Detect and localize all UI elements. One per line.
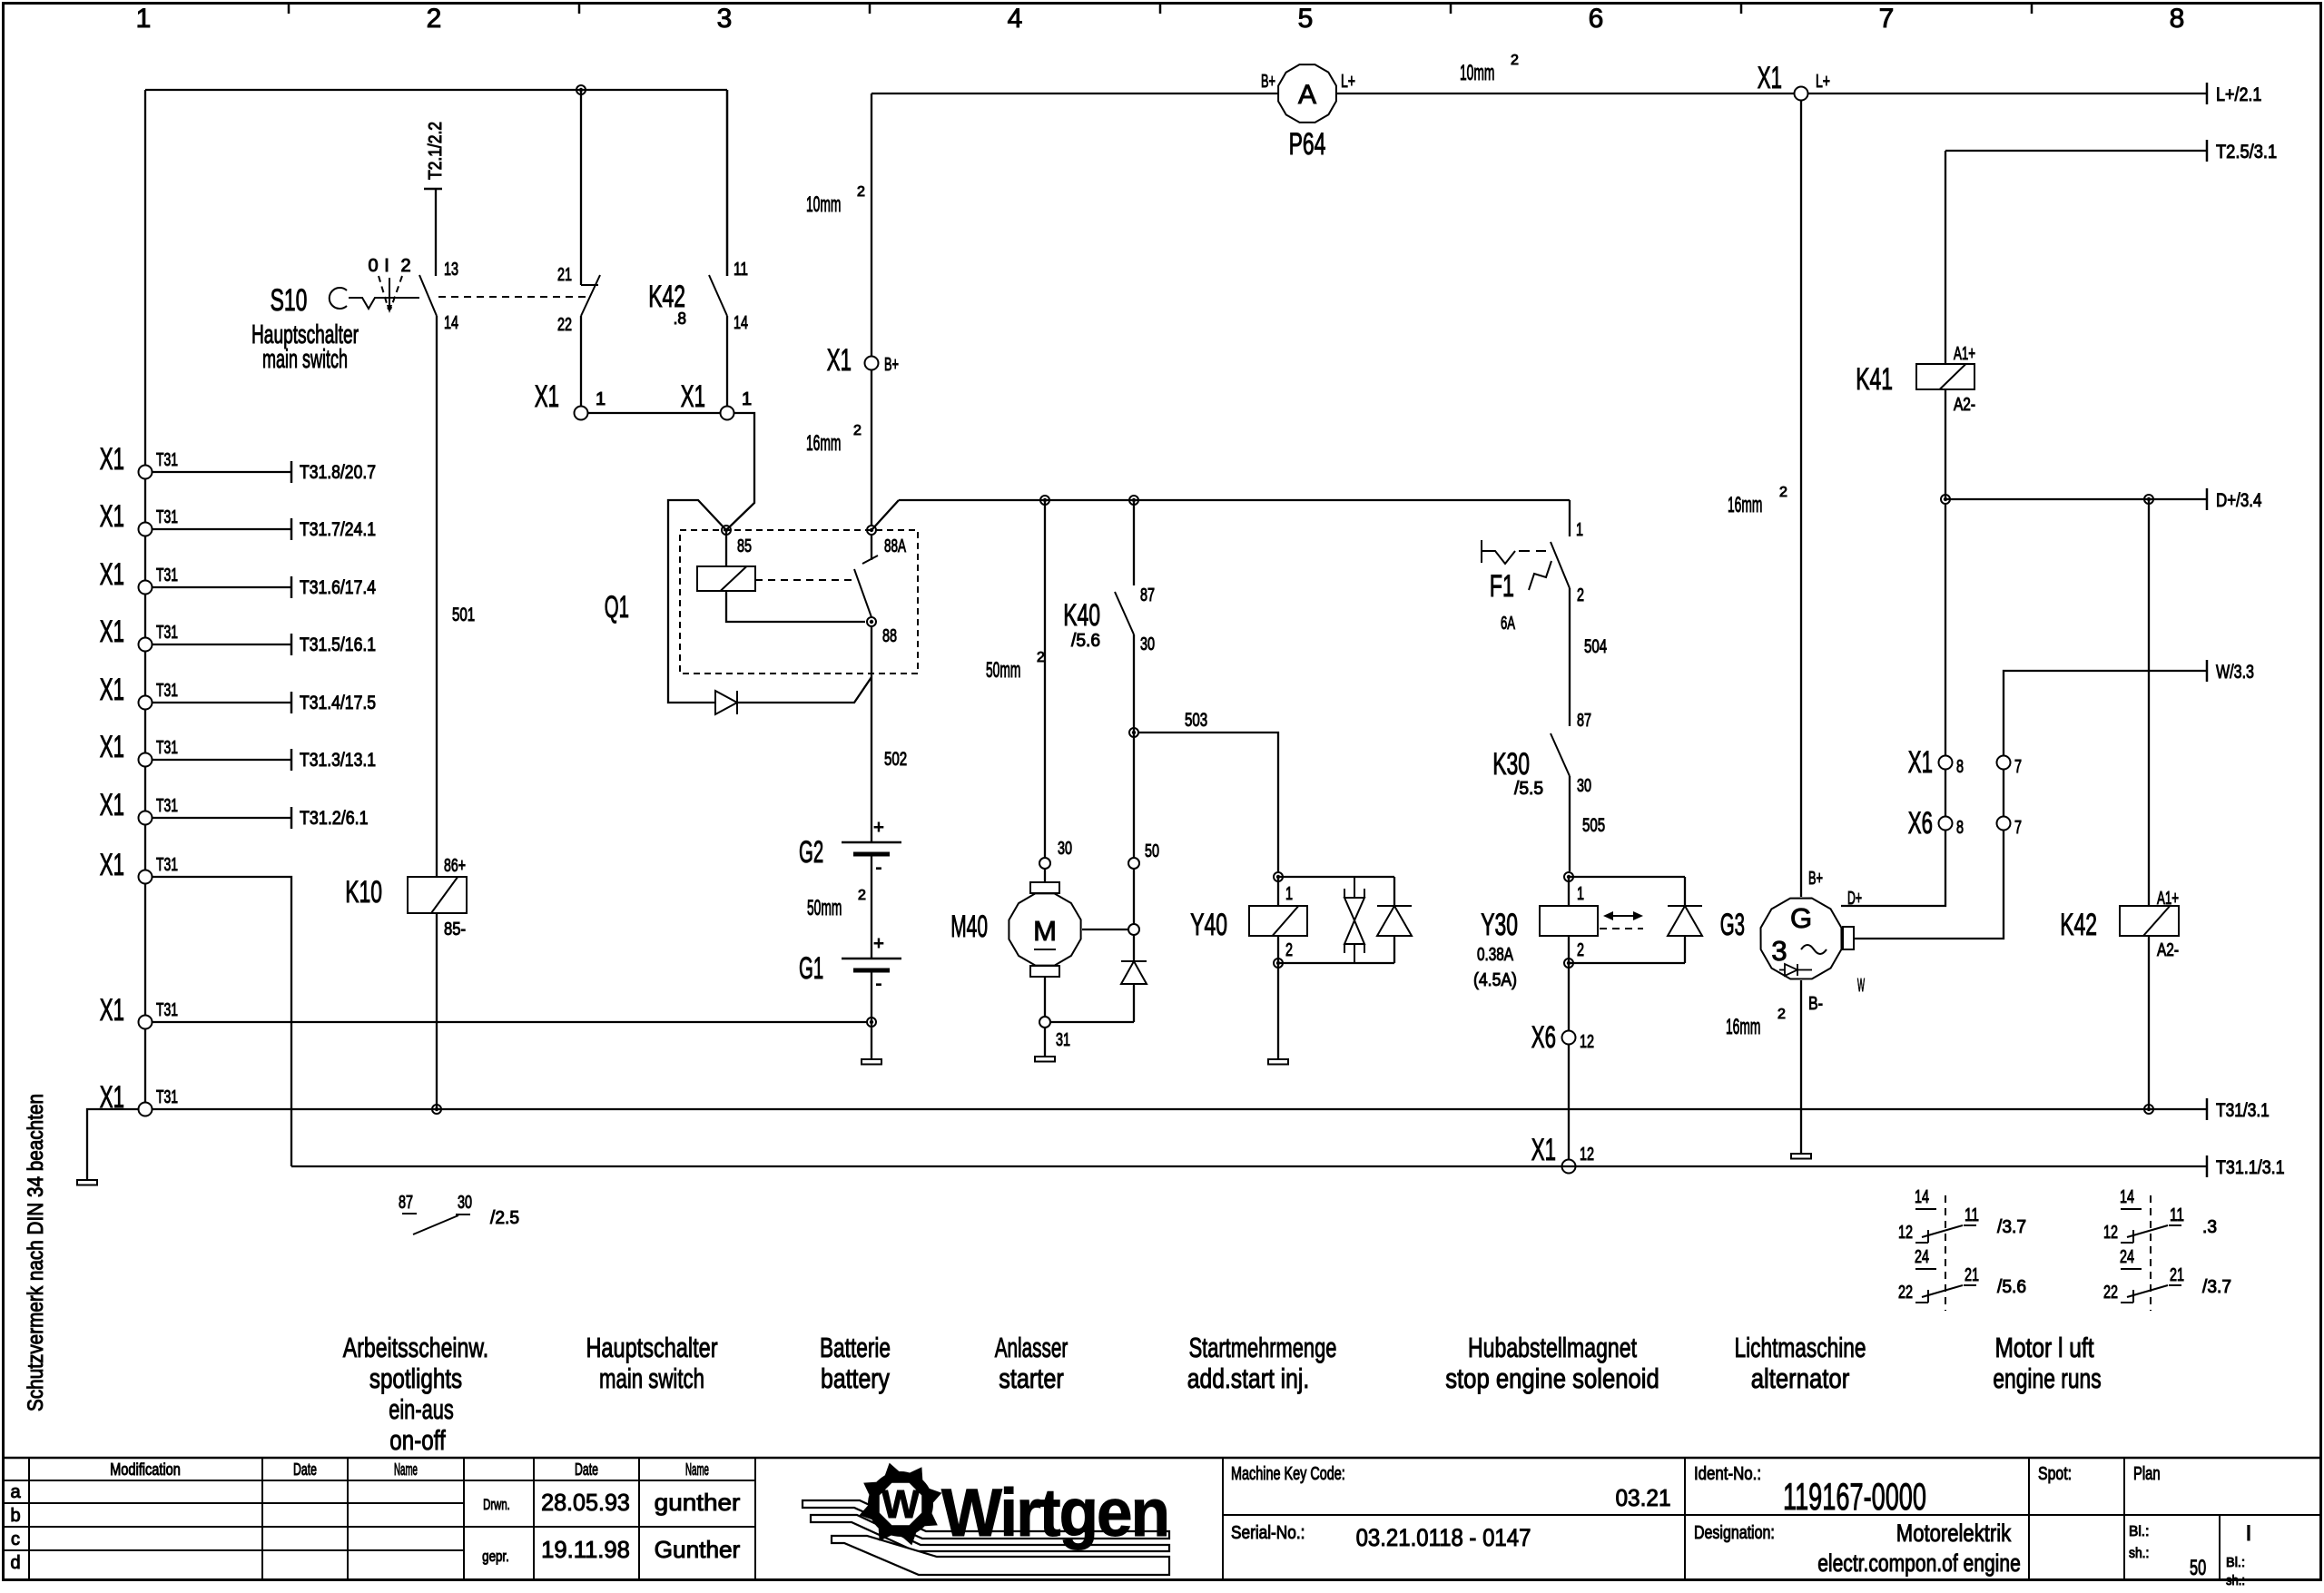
terminal X1-1 right [721, 407, 734, 420]
svg-text:Bl.:: Bl.: [2129, 1524, 2149, 1539]
svg-text:X1: X1 [827, 343, 852, 378]
terminal X1 row T31.8/20.7 [139, 466, 153, 479]
svg-text:B+: B+ [1261, 72, 1275, 92]
svg-text:10mm: 10mm [806, 192, 841, 217]
fuse F1 thermal symbol [1481, 540, 1482, 563]
svg-text:Y30: Y30 [1481, 908, 1518, 942]
ground left [77, 1180, 97, 1185]
node Y40 top [1274, 872, 1283, 881]
wire 16mm2 B+ drop [871, 93, 872, 357]
svg-text:13: 13 [444, 260, 458, 280]
svg-text:1: 1 [136, 4, 152, 34]
svg-text:16mm: 16mm [806, 431, 841, 456]
wire D+ to K42 coil [2148, 499, 2150, 906]
terminal X6-8 [1939, 817, 1953, 831]
svg-text:T31: T31 [156, 738, 178, 758]
svg-text:+: + [873, 818, 884, 838]
svg-text:03.21: 03.21 [1615, 1484, 1670, 1511]
svg-text:/3.7: /3.7 [2202, 1277, 2231, 1297]
terminal X1 row T31.2/6.1 [139, 811, 153, 825]
svg-text:22: 22 [557, 315, 572, 335]
contact Q1 seat [862, 556, 878, 564]
terminal solenoid input [1128, 924, 1139, 935]
wire K42 coil to T31 bus [2148, 936, 2150, 1109]
svg-text:ein-aus: ein-aus [389, 1393, 454, 1425]
svg-text:X1: X1 [100, 499, 124, 534]
wire 22 to X1-1 [580, 316, 582, 407]
terminal arrow W/3.3 [2206, 660, 2209, 682]
wire rail corner to F1 [1569, 500, 1571, 536]
svg-text:30: 30 [458, 1193, 472, 1213]
svg-text:11: 11 [734, 260, 748, 280]
wire coil to bottom node [1277, 936, 1279, 963]
svg-text:Batterie: Batterie [820, 1332, 891, 1363]
node Y30 top [1564, 872, 1573, 881]
wire Y40 to ground [1277, 963, 1279, 1059]
svg-text:T31: T31 [156, 623, 178, 643]
svg-text:Serial-No.:: Serial-No.: [1231, 1523, 1305, 1543]
svg-text:X1: X1 [1908, 745, 1933, 780]
svg-text:Date: Date [293, 1460, 317, 1479]
switch S10 contact blade [419, 275, 437, 316]
svg-text:2: 2 [857, 184, 865, 200]
wire Y40 top to coil [1277, 877, 1279, 906]
contact K42 21/22 upper stub [580, 90, 582, 285]
terminal X1-7 [1997, 756, 2011, 770]
ground G3 [1791, 1154, 1811, 1159]
ammeter P64 [1278, 64, 1336, 123]
wire 14 to X1-1 right [726, 316, 728, 407]
switch S10 position dashes [379, 276, 389, 310]
contact cross-ref table [1945, 1195, 1946, 1311]
svg-text:L+/2.1: L+/2.1 [2216, 84, 2261, 105]
wire 505 [1569, 776, 1571, 871]
node K42 coil to T31 bus [2144, 1105, 2153, 1114]
wire Y30 parallel branch [1569, 876, 1685, 878]
wire 30 to motor [1044, 869, 1046, 882]
wire coil to 88 [726, 591, 865, 622]
svg-text:Schutzvermerk nach DIN 34 beac: Schutzvermerk nach DIN 34 beachten [24, 1094, 48, 1411]
wire T31.1 bus [291, 1165, 2207, 1167]
svg-text:T31: T31 [156, 507, 178, 527]
terminal X6-7 [1997, 817, 2011, 831]
svg-text:Startmehrmenge: Startmehrmenge [1189, 1332, 1337, 1363]
svg-text:21: 21 [557, 265, 572, 285]
terminal arrow T2.5/3.1 [2206, 140, 2209, 162]
svg-text:Ident-No.:: Ident-No.: [1694, 1464, 1761, 1484]
svg-text:.8: .8 [674, 310, 686, 328]
svg-text:Bl.:: Bl.: [2226, 1555, 2245, 1570]
svg-text:sh.:: sh.: [2226, 1573, 2245, 1588]
svg-text:Y40: Y40 [1190, 908, 1227, 942]
svg-text:22: 22 [2103, 1283, 2118, 1303]
svg-text:7: 7 [2014, 818, 2022, 838]
svg-text:88: 88 [882, 626, 897, 646]
svg-text:30: 30 [1140, 634, 1155, 654]
svg-text:0.38A: 0.38A [1477, 945, 1514, 965]
wire B+ bus to P64 [871, 93, 1279, 94]
svg-text:main switch: main switch [262, 345, 348, 374]
wire 88A chamfer to rail [871, 500, 899, 530]
svg-text:T31.8/20.7: T31.8/20.7 [300, 462, 376, 483]
wire Y40 parallel branch [1278, 876, 1394, 878]
terminal arrow T31/3.1 [2206, 1098, 2209, 1120]
terminal arrow L+/2.1 [2206, 83, 2209, 104]
svg-text:X1: X1 [100, 673, 124, 707]
svg-text:X1: X1 [100, 848, 124, 882]
motion arrow Y30 [1605, 915, 1641, 917]
svg-text:28.05.93: 28.05.93 [541, 1489, 630, 1516]
svg-text:alternator: alternator [1751, 1362, 1850, 1394]
diode Y40 [1393, 877, 1395, 906]
node Y40 bottom [1274, 959, 1283, 968]
svg-text:Spot:: Spot: [2038, 1464, 2072, 1484]
wire T31 bus [152, 1108, 2207, 1110]
svg-text:X1: X1 [681, 379, 705, 414]
svg-text:6A: 6A [1501, 614, 1515, 634]
node K10 to T31 bus [432, 1105, 441, 1114]
contact K40 87 stub [1133, 500, 1135, 585]
svg-text:A2-: A2- [1954, 395, 1975, 415]
svg-text:P64: P64 [1289, 127, 1326, 162]
svg-text:G1: G1 [799, 951, 823, 986]
svg-text:I: I [384, 256, 389, 276]
svg-text:A: A [1298, 80, 1316, 110]
svg-text:Modification: Modification [110, 1460, 181, 1479]
terminal X1 row T31.6/17.4 [139, 581, 153, 595]
svg-text:85-: 85- [444, 919, 466, 939]
svg-text:Gunther: Gunther [655, 1536, 741, 1563]
svg-text:T31.5/16.1: T31.5/16.1 [300, 634, 376, 655]
wire top switched bus [145, 89, 581, 91]
S10 linkage dashed to K42 [438, 296, 588, 298]
wire D+ to junction [1841, 505, 1945, 906]
wire 31 ground stub [1044, 1028, 1046, 1057]
svg-text:G3: G3 [1720, 908, 1745, 942]
svg-text:3: 3 [717, 4, 733, 34]
contact K42 11/14 blade [709, 275, 727, 316]
svg-text:W/3.3: W/3.3 [2216, 662, 2254, 683]
svg-text:B-: B- [1808, 994, 1823, 1014]
switch S10 position arrow [389, 278, 390, 310]
node 88 [867, 617, 876, 626]
wire 504 [1569, 588, 1571, 726]
wire K10 coil to bus [436, 913, 438, 1109]
wire main rail [899, 499, 1570, 501]
relay K42 coil [2120, 906, 2179, 936]
svg-text:T31: T31 [156, 1000, 178, 1020]
wire L+ to sheet terminal [1807, 93, 2207, 94]
relay K41 coil [1916, 364, 1974, 389]
svg-text:6: 6 [1589, 4, 1604, 34]
terminal X1 row T31.3/13.1 [139, 753, 153, 767]
terminal X1 row T31 bus [139, 1103, 153, 1116]
wire left feed vertical X1 column [144, 90, 146, 1109]
svg-text:X1: X1 [100, 993, 124, 1028]
svg-text:2: 2 [1577, 585, 1584, 605]
svg-text:7: 7 [1879, 4, 1895, 34]
svg-text:21: 21 [1965, 1265, 1979, 1285]
svg-text:T31: T31 [156, 565, 178, 585]
svg-text:24: 24 [1915, 1247, 1929, 1267]
wire D+ rail [1945, 498, 2207, 500]
wave symbol inside [1801, 945, 1827, 954]
svg-text:gunther: gunther [655, 1489, 741, 1516]
svg-text:Lichtmaschine: Lichtmaschine [1734, 1332, 1866, 1363]
svg-text:L+: L+ [1816, 72, 1830, 92]
svg-text:Hauptschalter: Hauptschalter [586, 1332, 717, 1363]
svg-text:stop engine solenoid: stop engine solenoid [1445, 1362, 1659, 1394]
svg-text:sh.:: sh.: [2129, 1546, 2149, 1561]
svg-text:2: 2 [1577, 940, 1584, 960]
contact Q1 88A stub [871, 535, 872, 560]
wire 31 to solenoid return [1050, 1021, 1134, 1023]
svg-text:Drwn.: Drwn. [483, 1496, 510, 1513]
svg-text:03.21.0118 - 0147: 03.21.0118 - 0147 [1356, 1524, 1531, 1551]
svg-text:50: 50 [1145, 841, 1159, 861]
title block top line [3, 1457, 2321, 1460]
svg-text:T31: T31 [156, 796, 178, 816]
diode solenoid clamp [1121, 960, 1147, 962]
svg-text:F1: F1 [1490, 569, 1514, 604]
actuator dashed Y30 [1600, 928, 1643, 929]
svg-text:Name: Name [685, 1460, 709, 1479]
svg-text:T31.4/17.5: T31.4/17.5 [300, 693, 376, 713]
svg-text:502: 502 [884, 749, 907, 770]
svg-text:T2.5/3.1: T2.5/3.1 [2216, 142, 2277, 162]
svg-text:22: 22 [1898, 1283, 1913, 1303]
svg-text:d: d [10, 1553, 20, 1573]
svg-text:12: 12 [1580, 1032, 1594, 1052]
svg-text:505: 505 [1582, 815, 1605, 836]
svg-text:2: 2 [1511, 53, 1519, 68]
svg-text:T31.6/17.4: T31.6/17.4 [300, 577, 376, 598]
svg-text:50mm: 50mm [807, 896, 842, 920]
svg-text:1: 1 [1576, 520, 1583, 540]
contact K42 21/22 seat [581, 284, 598, 286]
svg-text:W: W [881, 1482, 920, 1527]
svg-text:50mm: 50mm [986, 658, 1020, 683]
svg-text:G: G [1790, 902, 1812, 934]
logo gear emblem [868, 1471, 933, 1537]
svg-text:T31.2/6.1: T31.2/6.1 [300, 808, 369, 829]
node junction K42-21 tap [576, 85, 586, 94]
terminal 30 starter [1039, 858, 1050, 869]
title block verticals [28, 1458, 30, 1578]
wire T2.5 to K41 coil [1945, 151, 1946, 364]
svg-text:T31: T31 [156, 450, 178, 470]
svg-text:X1: X1 [1531, 1133, 1556, 1167]
svg-text:14: 14 [734, 313, 748, 333]
svg-text:50: 50 [2190, 1556, 2206, 1580]
fuse F1 trip hook [1529, 561, 1551, 590]
svg-text:2: 2 [858, 888, 866, 903]
wire 501 S10-14 down to K10 [436, 316, 438, 877]
ground Y40 [1268, 1059, 1288, 1065]
svg-text:T31.1/3.1: T31.1/3.1 [2216, 1157, 2285, 1178]
svg-text:.3: .3 [2202, 1217, 2217, 1237]
svg-text:3: 3 [1771, 935, 1787, 967]
svg-text:501: 501 [452, 605, 475, 625]
svg-text:Plan: Plan [2133, 1464, 2161, 1484]
svg-text:Name: Name [394, 1460, 418, 1479]
svg-text:8: 8 [2170, 4, 2185, 34]
svg-text:2: 2 [853, 423, 862, 438]
relay Q1 actuator dashed [755, 579, 857, 581]
svg-text:T31.7/24.1: T31.7/24.1 [300, 519, 376, 540]
diode Q1 [715, 691, 737, 714]
alternator brush W [1843, 927, 1854, 949]
svg-text:X1: X1 [100, 788, 124, 822]
svg-text:T31/3.1: T31/3.1 [2216, 1100, 2270, 1121]
svg-text:b: b [10, 1506, 20, 1526]
node 503 tap [1129, 728, 1138, 737]
svg-text:30: 30 [1577, 776, 1591, 796]
terminal X6-12 [1562, 1031, 1576, 1045]
svg-text:504: 504 [1584, 636, 1607, 657]
node D+ rail K42 tap [2144, 495, 2153, 504]
node 88A [867, 526, 876, 535]
svg-text:2: 2 [1037, 650, 1045, 665]
ground starter [1035, 1057, 1055, 1062]
terminal arrow T31.1/3.1 [2206, 1155, 2209, 1177]
svg-text:add.start inj.: add.start inj. [1187, 1362, 1310, 1394]
svg-text:Motor l uft: Motor l uft [1994, 1332, 2093, 1363]
svg-text:7: 7 [2014, 757, 2022, 777]
node rail to K40 [1129, 496, 1138, 505]
svg-text:2: 2 [427, 4, 442, 34]
svg-text:electr.compon.of engine: electr.compon.of engine [1817, 1549, 2021, 1577]
svg-text:M: M [1033, 915, 1057, 947]
svg-text:14: 14 [1915, 1187, 1929, 1207]
svg-text:K42: K42 [2060, 908, 2097, 942]
svg-text:10mm: 10mm [1460, 61, 1494, 85]
svg-text:2: 2 [1285, 940, 1293, 960]
title block horizontals [3, 1480, 755, 1481]
terminal X1 row T31.5/16.1 [139, 638, 153, 652]
svg-text:L+: L+ [1341, 72, 1355, 92]
wire B+ alternator drop [1800, 100, 1802, 897]
svg-text:Anlasser: Anlasser [995, 1332, 1068, 1363]
terminal 50 solenoid [1128, 858, 1139, 869]
svg-text:31: 31 [1056, 1030, 1070, 1050]
contact K42 21/22 blade [581, 275, 600, 316]
motor M40 body [1009, 893, 1080, 965]
terminal X1 B+ [865, 357, 879, 370]
wire 503 [1138, 733, 1278, 871]
svg-text:Q1: Q1 [605, 590, 629, 624]
svg-text:Arbeitsscheinw.: Arbeitsscheinw. [343, 1332, 488, 1363]
svg-text:5: 5 [1298, 4, 1314, 34]
terminal X1 L+ [1795, 87, 1808, 101]
svg-text:Wirtgen: Wirtgen [941, 1475, 1168, 1550]
contact K30 blade [1551, 733, 1570, 776]
svg-text:T31: T31 [156, 1087, 178, 1107]
alternator G3 body [1761, 899, 1842, 979]
wire X6-12 to X1-12 [1568, 1044, 1570, 1166]
terminal X1-8 [1939, 756, 1953, 770]
contact K40 blade [1115, 592, 1134, 634]
svg-text:main switch: main switch [599, 1362, 704, 1394]
svg-text:B+: B+ [1808, 869, 1823, 889]
logo swoosh band 1 [803, 1500, 1169, 1539]
svg-text:19.11.98: 19.11.98 [541, 1536, 630, 1563]
wire G2 to G1 [871, 854, 872, 959]
wire K40 to 50 [1133, 634, 1135, 858]
wire motor to 31 [1044, 977, 1046, 1017]
terminal X1 row T31.7/24.1 [139, 523, 153, 536]
svg-text:-: - [876, 974, 882, 994]
wire T2.5 feed to K41 [1945, 150, 2207, 152]
switch S10 detent notch [349, 298, 419, 309]
svg-text:X6: X6 [1531, 1020, 1556, 1055]
wire battery ground stub [871, 1022, 872, 1059]
svg-text:X1: X1 [1758, 61, 1782, 95]
node 85 [722, 526, 731, 535]
wire 50 to solenoid input [1133, 869, 1135, 924]
svg-text:14: 14 [2120, 1187, 2134, 1207]
svg-text:K10: K10 [345, 875, 382, 910]
svg-text:87: 87 [399, 1193, 413, 1213]
svg-text:K30: K30 [1492, 747, 1530, 782]
svg-text:/2.5: /2.5 [490, 1208, 519, 1228]
wire Y30 coil to bottom node [1568, 936, 1570, 963]
wire B+ to 88A [871, 369, 872, 526]
node battery minus [867, 1018, 876, 1027]
svg-text:24: 24 [2120, 1247, 2134, 1267]
terminal X1 row battery minus [139, 1016, 153, 1029]
node Y30 bottom [1564, 959, 1573, 968]
column ticks top [288, 3, 290, 14]
svg-text:battery: battery [821, 1362, 890, 1394]
svg-text:1: 1 [742, 389, 752, 409]
svg-text:A1+: A1+ [1954, 344, 1975, 364]
wire P64 to X1 L+ [1335, 93, 1795, 94]
svg-text:G2: G2 [799, 835, 823, 870]
svg-text:Motorelektrik: Motorelektrik [1896, 1519, 2012, 1547]
svg-text:16mm: 16mm [1726, 1015, 1760, 1039]
wire between X1-1 terminals [587, 412, 721, 414]
wire row9 to battery node [152, 1021, 867, 1023]
svg-text:X1: X1 [100, 615, 124, 649]
relay Q1 coil [697, 566, 755, 591]
svg-text:M40: M40 [950, 910, 988, 944]
svg-text:85: 85 [737, 536, 752, 556]
diode Y30 [1684, 877, 1686, 906]
relay K10 coil [408, 877, 467, 913]
svg-text:/5.6: /5.6 [1071, 631, 1100, 651]
motor M40 brush top [1030, 882, 1059, 893]
logo swoosh band 3 [832, 1536, 1169, 1575]
svg-text:-: - [876, 858, 882, 878]
svg-text:engine runs: engine runs [1993, 1362, 2101, 1394]
terminal X1-12 [1562, 1160, 1576, 1174]
solenoid Y40 coil [1249, 906, 1307, 936]
svg-text:30: 30 [1058, 839, 1072, 859]
wire W to terminal [1854, 671, 2207, 939]
svg-text:K41: K41 [1856, 362, 1893, 397]
wire motor to solenoid terminal [1082, 929, 1128, 930]
svg-text:119167-0000: 119167-0000 [1783, 1475, 1926, 1518]
svg-text:on-off: on-off [389, 1424, 446, 1456]
svg-text:0: 0 [368, 256, 378, 276]
svg-text:T31.3/13.1: T31.3/13.1 [300, 750, 376, 771]
svg-text:A2-: A2- [2157, 940, 2179, 960]
svg-text:16mm: 16mm [1728, 493, 1762, 517]
svg-text:87: 87 [1140, 585, 1155, 605]
svg-text:Date: Date [575, 1460, 598, 1479]
relay Q1 dashed enclosure [680, 530, 918, 674]
